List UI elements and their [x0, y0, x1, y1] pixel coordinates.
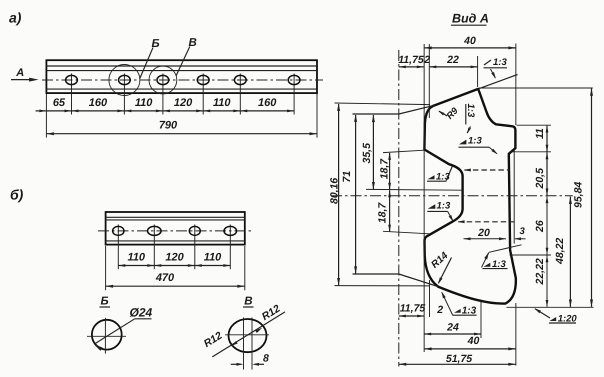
- bolt hole 6 tick: [293, 74, 295, 115]
- detail circle B1: [109, 65, 140, 96]
- svg-text:71: 71: [341, 171, 353, 183]
- dimension line row short plate: [118, 264, 230, 267]
- detail circle V1: [149, 66, 177, 94]
- dimension 71: [341, 171, 353, 183]
- radius R12 leader: [212, 312, 285, 357]
- detail V label: [243, 296, 254, 308]
- dimension 24 line: [424, 333, 481, 336]
- dimension 95_84: [573, 182, 585, 208]
- svg-text:110: 110: [204, 252, 222, 264]
- profile horizontal centerline: [331, 195, 573, 197]
- svg-text:Б: Б: [101, 296, 109, 308]
- ext line right lobe upper: [515, 44, 517, 126]
- bolt hole 1 tick: [71, 74, 73, 115]
- view direction arrow A: [11, 67, 39, 82]
- dimension 22 line: [429, 66, 477, 69]
- detail B horizontal centerline: [87, 335, 126, 337]
- svg-text:110: 110: [128, 252, 146, 264]
- dimension 18_7 lower line: [388, 190, 391, 231]
- svg-text:80,16: 80,16: [329, 178, 341, 204]
- dimension 3 arrow: [515, 237, 526, 240]
- ext bottom of 80_16: [335, 285, 430, 287]
- svg-text:160: 160: [258, 97, 277, 109]
- svg-text:120: 120: [165, 252, 184, 264]
- svg-text:24: 24: [446, 321, 459, 333]
- ext line web face: [513, 150, 515, 244]
- dimension 8 line: [231, 363, 264, 366]
- short plate line 2: [106, 219, 245, 221]
- dimension 80_16 line: [337, 103, 340, 285]
- svg-text:22: 22: [446, 54, 459, 66]
- svg-text:40: 40: [463, 35, 476, 47]
- svg-text:б): б): [10, 187, 24, 203]
- svg-text:790: 790: [159, 120, 178, 132]
- center line of side view: [42, 79, 323, 81]
- ext bottom right: [507, 306, 594, 308]
- svg-text:26: 26: [534, 220, 546, 233]
- extension left short plate: [105, 246, 107, 290]
- slope mark right edge: [482, 245, 522, 270]
- bolt hole 2 tick: [123, 74, 125, 115]
- svg-text:11: 11: [534, 128, 546, 139]
- bottom slope extension: [353, 274, 439, 287]
- dimension R12 lower: [202, 330, 225, 350]
- dimension 22_22 line: [546, 255, 549, 307]
- dimension 48_22: [554, 238, 566, 265]
- ext line bottom slope end: [480, 302, 482, 339]
- dimension 11 right: [534, 128, 546, 139]
- dimension R12 upper: [260, 303, 283, 323]
- svg-text:48,22: 48,22: [554, 238, 566, 265]
- svg-text:1:3: 1:3: [493, 57, 507, 68]
- svg-text:35,5: 35,5: [361, 143, 373, 164]
- svg-text:65: 65: [53, 97, 66, 109]
- svg-text:470: 470: [155, 272, 175, 284]
- label V leader: [176, 47, 190, 77]
- bolt hole 3: [157, 75, 169, 84]
- slope mark mid 1:3: [459, 136, 498, 155]
- dashed line upper: [464, 169, 510, 172]
- dimension 51_75 line: [399, 363, 516, 366]
- svg-text:Б: Б: [152, 38, 160, 50]
- bolt hole 5: [234, 75, 246, 84]
- bolt hole 2: [119, 75, 131, 84]
- dimension 40 bottom line: [424, 347, 516, 350]
- svg-text:2: 2: [436, 304, 443, 316]
- short plate line 3: [106, 240, 245, 242]
- detail B label: [100, 296, 111, 308]
- dimension 11 line: [546, 126, 549, 152]
- ext line 2 lower: [429, 280, 431, 317]
- svg-text:160: 160: [89, 97, 108, 109]
- ext line 2 upper: [428, 44, 430, 118]
- radius R9: [438, 105, 460, 121]
- dimension 18_7 upper line: [388, 153, 391, 190]
- short plate hole 1 tick: [117, 225, 119, 270]
- svg-text:Ø24: Ø24: [130, 306, 153, 320]
- detail V ext line right: [251, 318, 253, 370]
- dimension 20 line: [464, 237, 507, 240]
- slope mark lower waist: [427, 201, 453, 222]
- center line short plate: [98, 230, 252, 232]
- detail B circle: [92, 320, 122, 350]
- fishplate profile outline: [424, 89, 515, 304]
- short plate hole 4 tick: [229, 225, 231, 270]
- ext lobe top right: [517, 124, 552, 126]
- svg-text:Вид А: Вид А: [452, 12, 489, 26]
- short plate hole 3: [189, 226, 200, 235]
- svg-text:18,7: 18,7: [378, 158, 390, 180]
- svg-text:110: 110: [213, 97, 231, 109]
- dimension 35_5 line: [372, 115, 375, 190]
- svg-text:11,75: 11,75: [400, 302, 426, 314]
- detail V horizontal centerline: [225, 334, 269, 336]
- slope mark bottom: [441, 291, 476, 316]
- dimension 35_5: [361, 143, 373, 164]
- ext top of 80_16: [335, 103, 431, 105]
- dimension 18_7 upper: [378, 158, 390, 180]
- bolt hole 4: [197, 75, 209, 84]
- title Vid A: [451, 12, 489, 26]
- svg-text:1:3: 1:3: [468, 136, 482, 147]
- ext peak level right: [479, 87, 593, 89]
- svg-text:2: 2: [423, 54, 430, 66]
- dimension 470 line: [106, 285, 245, 288]
- bolt hole 6: [288, 75, 300, 84]
- dimension 71 line: [354, 114, 357, 274]
- extension line left end view a: [45, 94, 47, 138]
- dimension 95_84 line: [590, 88, 593, 307]
- dimension 20_5: [534, 168, 546, 190]
- dimension 26 line: [546, 196, 549, 255]
- svg-text:20: 20: [477, 227, 490, 239]
- ext lobe bottom right: [510, 151, 552, 153]
- dimension 22_22: [534, 258, 546, 285]
- dashed line lower: [458, 220, 515, 223]
- ext line left edge profile: [423, 44, 425, 352]
- slope mark 1:20: [534, 308, 577, 324]
- dimension 11_75 top line: [399, 66, 424, 69]
- detail B vertical centerline: [104, 318, 106, 354]
- svg-text:8: 8: [263, 352, 269, 364]
- bolt hole 4 tick: [202, 74, 204, 115]
- short plate line 1: [106, 216, 245, 218]
- slope mark upper waist: [427, 166, 452, 182]
- dimension 40 top line: [424, 46, 516, 49]
- svg-text:51,75: 51,75: [446, 353, 472, 365]
- dimension 11_75 bottom line: [399, 315, 424, 318]
- svg-text:3: 3: [520, 226, 526, 237]
- svg-text:В: В: [244, 296, 252, 308]
- svg-text:95,84: 95,84: [573, 182, 585, 208]
- bolt hole 1: [66, 75, 78, 84]
- fishing surface line bottom: [46, 88, 317, 90]
- dimension 26: [534, 220, 546, 233]
- svg-text:1:3: 1:3: [465, 104, 476, 118]
- dimension 790 line: [46, 132, 317, 135]
- top-left slope extension: [353, 105, 435, 114]
- short plate hole 4: [224, 226, 237, 235]
- slope mark top 1:3: [484, 57, 508, 79]
- detail V oval: [229, 319, 267, 352]
- diameter 24 leader: [94, 319, 152, 351]
- ext upper corner: [383, 150, 424, 152]
- bolt hole 3 tick: [162, 74, 164, 115]
- dimension 48_22 line: [569, 197, 572, 308]
- svg-text:120: 120: [174, 97, 193, 109]
- profile axis line: [398, 50, 400, 367]
- svg-text:18,7: 18,7: [376, 202, 388, 224]
- fishplate side view outline: [46, 60, 317, 93]
- short plate hole 1: [113, 226, 124, 235]
- extension right short plate: [244, 246, 246, 290]
- svg-text:а): а): [9, 10, 22, 26]
- svg-text:1:3: 1:3: [437, 201, 451, 212]
- slope 1:3 head label: [465, 104, 476, 134]
- short plate hole 3 tick: [194, 225, 196, 270]
- svg-text:11,75: 11,75: [398, 54, 424, 66]
- short fishplate outline: [106, 212, 245, 245]
- dimension 20_5 line: [546, 152, 549, 195]
- top slope extension line: [478, 75, 517, 89]
- dimension 18_7 lower: [376, 202, 388, 224]
- label B leader: [140, 48, 153, 79]
- svg-text:40: 40: [467, 335, 480, 347]
- dimension line row holes view a: [36, 110, 295, 113]
- fishing surface line top: [46, 65, 317, 67]
- dimension 80_16: [329, 178, 341, 204]
- detail V ext line left: [243, 318, 245, 370]
- radius R14: [429, 250, 451, 284]
- short plate hole 2: [148, 226, 162, 235]
- svg-text:22,22: 22,22: [534, 258, 546, 285]
- ext line peak: [477, 56, 479, 87]
- svg-text:А: А: [15, 67, 24, 79]
- ext lower corner: [383, 231, 430, 234]
- svg-text:20,5: 20,5: [534, 168, 546, 190]
- ext right middle: [510, 254, 552, 256]
- svg-text:В: В: [189, 37, 197, 49]
- ext line right lower: [515, 303, 517, 366]
- svg-text:110: 110: [135, 97, 153, 109]
- fishing surface line 2: [46, 70, 317, 72]
- extension line right end view a: [316, 94, 318, 138]
- bolt hole 5 tick: [239, 74, 241, 115]
- ext middle boundary: [366, 188, 463, 191]
- short plate hole 2 tick: [153, 225, 155, 270]
